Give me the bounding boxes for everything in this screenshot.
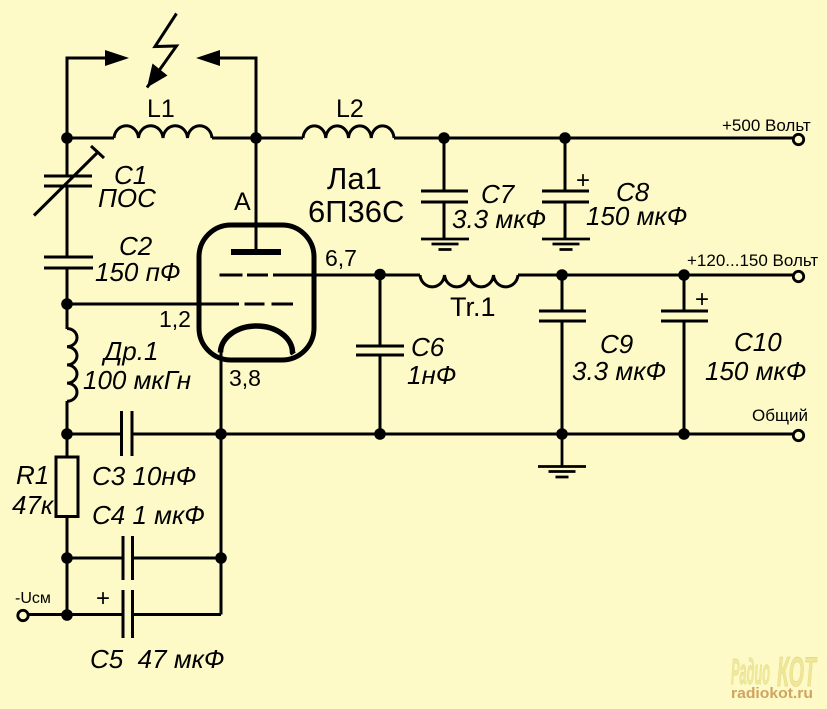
- node grid1 left: [61, 298, 73, 310]
- svg-text:1,2: 1,2: [159, 306, 191, 332]
- node bottom rail ground: [556, 428, 568, 440]
- ground below C8: [542, 239, 590, 250]
- node C4 right: [215, 552, 227, 564]
- node C5 left: [61, 609, 73, 621]
- inductor L2: [303, 126, 394, 138]
- wire right arrow vertical: [218, 58, 256, 139]
- node dots: [61, 132, 690, 621]
- anode bar: [231, 249, 281, 255]
- svg-text:L2: L2: [336, 95, 364, 123]
- node screen rail C10: [678, 269, 690, 281]
- capacitor C5 plates: [123, 590, 133, 638]
- capacitor C1 arrow: [34, 146, 104, 216]
- capacitor C9: [539, 275, 586, 434]
- svg-text:+: +: [576, 167, 590, 194]
- wire cathode column: [28, 352, 221, 615]
- cathode arc: [221, 326, 294, 354]
- wire C4 line: [67, 557, 221, 560]
- inductor L1: [114, 126, 212, 138]
- capacitor C2 plates: [44, 257, 93, 268]
- terminal +120V: [793, 271, 803, 281]
- ground below C7: [421, 239, 469, 250]
- capacitor C1 plates: [44, 176, 92, 186]
- node top rail anode: [250, 132, 262, 144]
- node bottom rail left: [61, 428, 73, 440]
- node bottom rail C10: [678, 428, 690, 440]
- inductor Tr1: [420, 275, 518, 287]
- wire left column: [66, 138, 69, 615]
- arrowhead right (points left): [196, 50, 220, 66]
- svg-text:6,7: 6,7: [325, 245, 357, 271]
- svg-text:+: +: [96, 585, 110, 612]
- wire grid1 lead: [67, 303, 293, 306]
- wire left arrow vertical: [67, 58, 106, 139]
- svg-text:+: +: [695, 286, 709, 313]
- svg-text:3,8: 3,8: [229, 365, 261, 391]
- inductor Dr1: [67, 329, 77, 402]
- node C4 left: [61, 552, 73, 564]
- svg-text:Др.1: Др.1: [101, 336, 158, 366]
- node bottom rail cathode: [215, 428, 227, 440]
- node screen rail C9: [556, 269, 568, 281]
- svg-text:С6: С6: [411, 332, 445, 362]
- svg-text:+120...150 Вольт: +120...150 Вольт: [687, 251, 818, 270]
- capacitor C10: [661, 275, 708, 434]
- wire bottom rail: [67, 433, 793, 436]
- node screen rail C6: [374, 269, 386, 281]
- svg-text:100 мкГн: 100 мкГн: [83, 365, 191, 395]
- capacitor C6: [356, 275, 404, 434]
- node bottom rail C6: [374, 428, 386, 440]
- svg-text:+500 Вольт: +500 Вольт: [722, 116, 811, 135]
- svg-text:-Uсм: -Uсм: [15, 590, 51, 607]
- svg-text:150 мкФ: 150 мкФ: [586, 201, 687, 231]
- svg-text:R1: R1: [16, 460, 49, 490]
- vacuum tube La1 envelope: [199, 225, 314, 360]
- capacitor C3 plates: [122, 411, 133, 456]
- svg-text:С10: С10: [734, 327, 782, 357]
- ground below bottom rail: [538, 434, 586, 477]
- capacitor C8: [542, 138, 589, 240]
- svg-text:1нФ: 1нФ: [407, 360, 456, 390]
- svg-text:С3 10нФ: С3 10нФ: [92, 461, 196, 491]
- svg-text:Ла1: Ла1: [327, 161, 382, 196]
- svg-text:47к: 47к: [12, 490, 55, 520]
- svg-text:150 пФ: 150 пФ: [95, 257, 181, 287]
- terminal +500V: [793, 134, 803, 144]
- svg-text:А: А: [234, 188, 251, 216]
- capacitor C7: [421, 138, 468, 239]
- svg-text:С5 47 мкФ: С5 47 мкФ: [90, 644, 225, 674]
- node top rail C7: [438, 132, 450, 144]
- svg-text:3.3 мкФ: 3.3 мкФ: [572, 356, 666, 386]
- svg-text:Общий: Общий: [752, 406, 808, 425]
- resistor R1 body: [56, 457, 78, 517]
- wire top rail: [67, 137, 793, 140]
- svg-text:6П36С: 6П36С: [308, 194, 404, 229]
- svg-text:С9: С9: [600, 329, 633, 359]
- svg-text:L1: L1: [147, 95, 175, 123]
- terminal -Ucm: [18, 610, 28, 620]
- svg-text:С4 1 мкФ: С4 1 мкФ: [92, 500, 205, 530]
- wire anode lead: [255, 138, 258, 252]
- svg-text:3.3 мкФ: 3.3 мкФ: [452, 204, 546, 234]
- node top rail left: [61, 132, 73, 144]
- svg-text:Tr.1: Tr.1: [450, 292, 496, 322]
- lightning bolt: [147, 14, 177, 88]
- capacitor C4 plates: [123, 536, 133, 580]
- node top rail C8: [559, 132, 571, 144]
- arrowhead left (points right): [105, 50, 129, 66]
- svg-text:radiokot.ru: radiokot.ru: [731, 685, 813, 702]
- wire grid2 lead / screen rail: [220, 274, 794, 277]
- svg-text:ПОС: ПОС: [98, 183, 156, 213]
- svg-text:150 мкФ: 150 мкФ: [705, 356, 806, 386]
- terminal common: [793, 430, 803, 440]
